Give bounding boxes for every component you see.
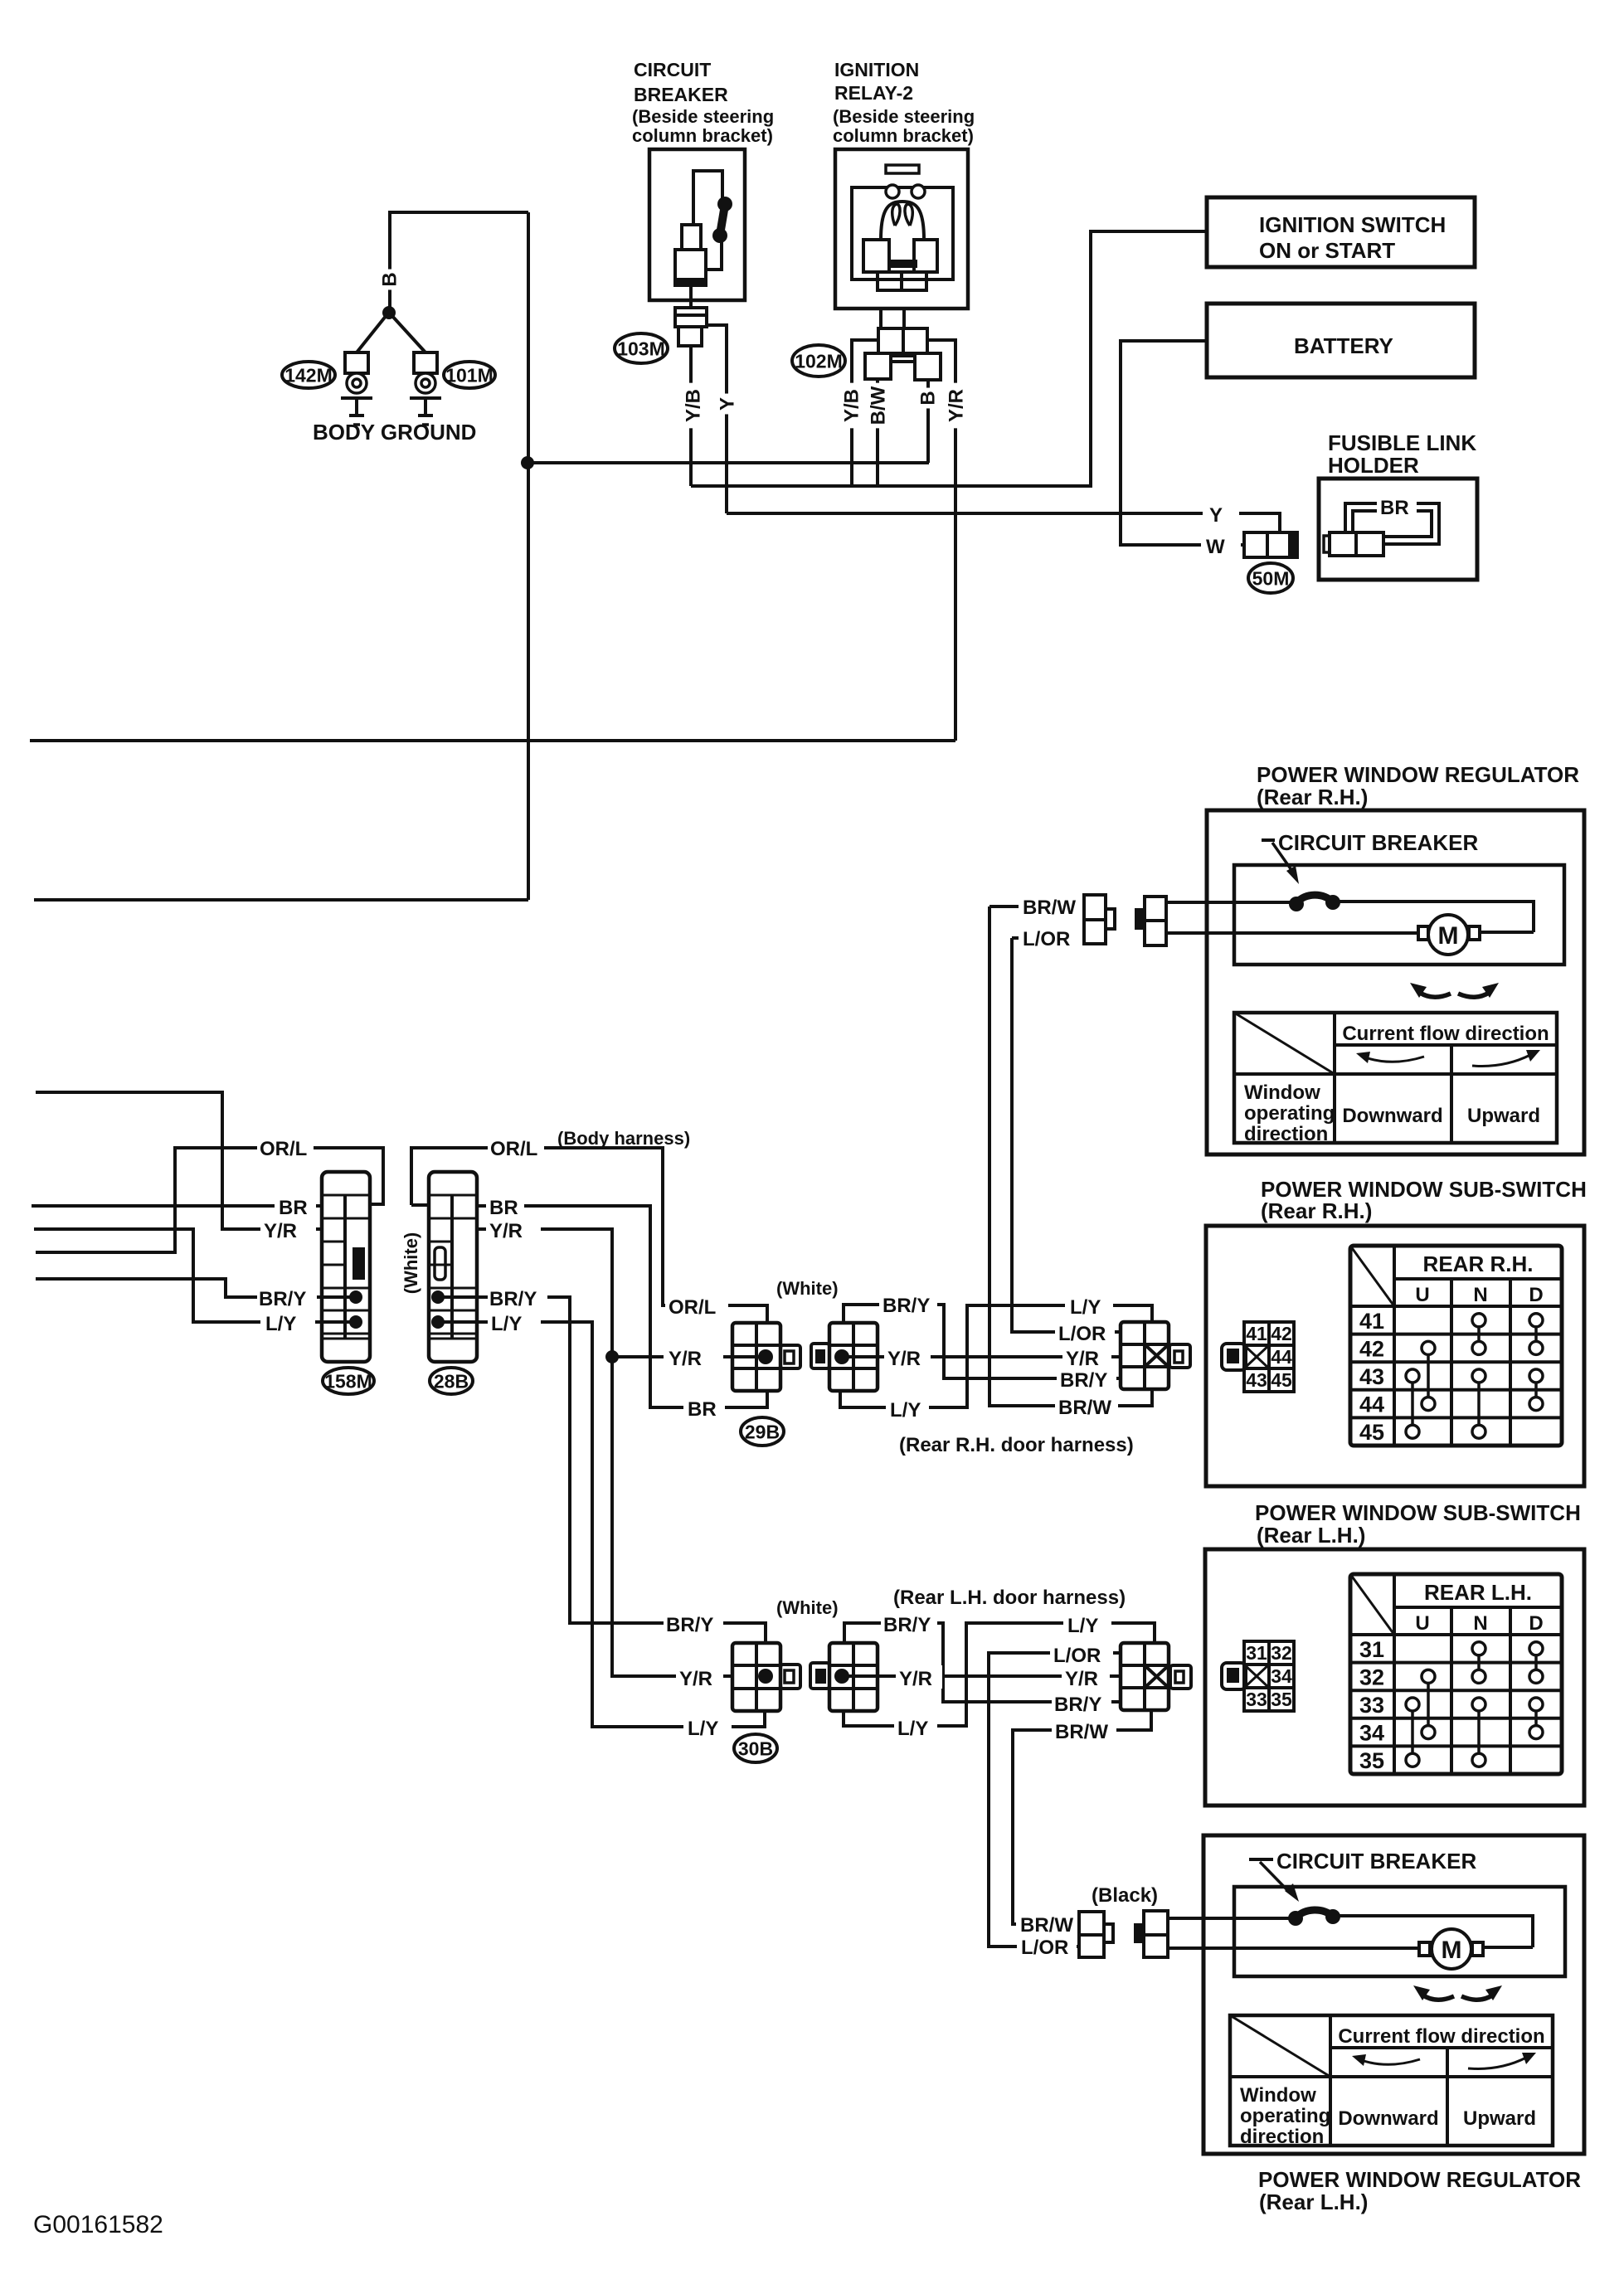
wire L/Y 29B to subswitch — [840, 1305, 1152, 1407]
svg-text:(White): (White) — [776, 1597, 839, 1618]
svg-text:L/OR: L/OR — [1021, 1937, 1068, 1959]
connector to subswitch RH tab — [1169, 1344, 1190, 1368]
fusible link loop — [1345, 503, 1439, 544]
label BR/Y 158M — [257, 1286, 317, 1309]
svg-text:CIRCUIT BREAKER: CIRCUIT BREAKER — [1276, 1849, 1476, 1874]
svg-text:34: 34 — [1359, 1721, 1384, 1746]
svg-text:BODY GROUND: BODY GROUND — [313, 420, 476, 445]
label Y/R 30B right — [1062, 1665, 1110, 1689]
svg-text:44: 44 — [1271, 1346, 1292, 1368]
svg-text:35: 35 — [1359, 1748, 1384, 1773]
relay coil — [881, 202, 924, 240]
label BR 29B — [683, 1395, 725, 1420]
svg-text:Y/R: Y/R — [679, 1668, 712, 1690]
svg-text:B/W: B/W — [868, 386, 890, 425]
relay slot — [886, 165, 919, 173]
regulator RH inner frame — [1234, 865, 1564, 965]
relay inner box — [852, 187, 953, 279]
rotation arrows RH — [1420, 993, 1451, 997]
svg-text:42: 42 — [1359, 1336, 1384, 1361]
svg-text:BR/Y: BR/Y — [883, 1614, 931, 1636]
svg-text:CIRCUIT: CIRCUIT — [634, 59, 711, 80]
svg-text:(Rear R.H. door harness): (Rear R.H. door harness) — [899, 1434, 1134, 1456]
label L/Y right — [1065, 1294, 1113, 1319]
label Y/R 28B — [486, 1217, 541, 1241]
wire bus L/Y 158M — [34, 1229, 322, 1322]
connector 30B left — [732, 1643, 780, 1711]
svg-text:B: B — [917, 391, 940, 405]
svg-text:Y/R: Y/R — [899, 1668, 932, 1690]
label OR/L 158M — [257, 1135, 314, 1159]
svg-text:29B: 29B — [745, 1421, 780, 1442]
connector 102M label — [792, 345, 845, 377]
svg-text:U: U — [1415, 1284, 1429, 1306]
connector 103M label — [615, 333, 668, 363]
connector 30B left tab — [780, 1665, 800, 1689]
connector 28B pins — [431, 1290, 445, 1304]
label BR/W regulator RH — [1019, 895, 1088, 918]
wire Y/B from 103M — [689, 346, 693, 486]
svg-text:Y/B: Y/B — [841, 389, 863, 422]
label L/Y 30B right — [1063, 1612, 1111, 1635]
svg-text:32: 32 — [1271, 1642, 1292, 1664]
wire L/OR to subswitch — [1012, 938, 1121, 1332]
wire BR/W 30B to regulator — [1013, 1712, 1151, 1924]
ground 142M — [345, 352, 368, 373]
svg-text:OR/L: OR/L — [669, 1296, 716, 1319]
label Y/B 102M — [837, 383, 867, 429]
svg-text:L/OR: L/OR — [1053, 1645, 1101, 1667]
wire motor LH right — [1483, 1946, 1533, 1949]
svg-text:34: 34 — [1271, 1665, 1292, 1687]
wire relay to 102M — [879, 309, 883, 328]
wire Y/B from 102M — [852, 340, 878, 486]
svg-text:POWER WINDOW REGULATOR: POWER WINDOW REGULATOR — [1258, 2167, 1581, 2192]
svg-text:L/Y: L/Y — [890, 1399, 921, 1422]
wire regulator RH top right — [1333, 902, 1534, 932]
connector regulator RH left — [1084, 895, 1106, 944]
label Y/R right — [1062, 1345, 1111, 1368]
svg-text:33: 33 — [1246, 1689, 1267, 1710]
svg-text:L/Y: L/Y — [688, 1718, 718, 1740]
wire BR/Y 30B to subswitch — [844, 1623, 1121, 1702]
wire Y/R from 102M — [927, 340, 955, 741]
svg-text:102M: 102M — [795, 350, 843, 372]
svg-text:BR/W: BR/W — [1020, 1914, 1073, 1937]
wire y586 Y/B B/W to ignition switch — [691, 231, 1207, 486]
svg-text:BR/Y: BR/Y — [259, 1288, 306, 1310]
svg-text:Window: Window — [1244, 1081, 1320, 1104]
svg-text:158M: 158M — [324, 1370, 372, 1392]
label OR/L 29B — [665, 1294, 728, 1319]
circuit breaker CB1 connector — [682, 225, 701, 250]
svg-text:42: 42 — [1271, 1323, 1292, 1344]
svg-text:101M: 101M — [445, 364, 494, 386]
connector 30B right pin — [834, 1669, 849, 1684]
svg-text:N: N — [1473, 1284, 1487, 1306]
wire BR/W to subswitch — [989, 906, 1152, 1406]
svg-text:BATTERY: BATTERY — [1294, 333, 1393, 358]
connector 103M — [675, 308, 707, 327]
connector regulator LH left — [1079, 1912, 1104, 1957]
svg-text:32: 32 — [1359, 1665, 1384, 1689]
label BR/W regulator LH — [1016, 1912, 1077, 1936]
arrow to breaker RH — [1272, 843, 1296, 876]
svg-text:L/OR: L/OR — [1058, 1323, 1106, 1345]
svg-text:BR/Y: BR/Y — [489, 1288, 537, 1310]
svg-text:OR/L: OR/L — [260, 1138, 307, 1160]
connector 30B left pin — [758, 1669, 773, 1684]
relay pin circles — [886, 185, 899, 198]
switch table REAR L.H. — [1350, 1574, 1562, 1774]
connector 30B right — [829, 1643, 878, 1711]
label Y/B 103M — [678, 383, 708, 429]
sub-switch LH pin grid — [1244, 1641, 1294, 1711]
circuit breaker CB1 wire to connector — [706, 241, 722, 270]
circuit breaker CB1 internal wire — [693, 171, 722, 225]
svg-text:column bracket): column bracket) — [632, 125, 773, 146]
fusible link connector — [1330, 532, 1383, 556]
wire bus BR 158M — [32, 1204, 322, 1208]
connector 29B label — [741, 1417, 784, 1446]
wire bus BR/Y 158M — [36, 1279, 322, 1297]
wire L/Y 30B to subswitch — [844, 1623, 1155, 1726]
label Y fusible — [1203, 501, 1239, 526]
label B (body ground wire) — [375, 270, 405, 290]
label (White) 28B — [398, 1219, 425, 1306]
motor M RH — [1418, 926, 1428, 940]
connector 29B right — [829, 1323, 878, 1391]
svg-text:operating: operating — [1244, 1102, 1335, 1125]
label BR/Y 30B left — [664, 1611, 723, 1635]
ignition switch box — [1207, 197, 1475, 267]
svg-text:Downward: Downward — [1342, 1105, 1442, 1127]
svg-text:BR/Y: BR/Y — [1060, 1369, 1107, 1392]
svg-text:(Black): (Black) — [1092, 1884, 1158, 1907]
svg-text:ON or START: ON or START — [1259, 238, 1395, 263]
label Y/R 158M — [260, 1217, 316, 1241]
wire Y/R into 29B — [612, 1355, 766, 1358]
label W fusible — [1201, 532, 1241, 557]
svg-text:(Rear L.H.): (Rear L.H.) — [1257, 1523, 1365, 1548]
svg-text:BR/W: BR/W — [1058, 1397, 1111, 1419]
label BR/Y 29B right — [879, 1290, 937, 1315]
svg-text:Y/R: Y/R — [489, 1220, 523, 1242]
svg-text:L/OR: L/OR — [1023, 928, 1070, 950]
svg-text:U: U — [1415, 1612, 1429, 1635]
svg-text:IGNITION: IGNITION — [834, 59, 919, 80]
svg-text:28B: 28B — [434, 1370, 469, 1392]
power window regulator LH box — [1203, 1835, 1584, 2154]
label Y/R 30B left — [676, 1665, 723, 1689]
label B/W 102M — [863, 383, 893, 429]
svg-text:Upward: Upward — [1463, 2107, 1536, 2130]
svg-text:L/Y: L/Y — [265, 1313, 296, 1335]
svg-text:(Rear R.H.): (Rear R.H.) — [1257, 785, 1368, 809]
wire L/OR 30B to regulator — [989, 1653, 1121, 1946]
connector 29B left — [732, 1323, 780, 1391]
node Y/R junction — [605, 1350, 619, 1363]
regulator LH inner frame — [1234, 1887, 1565, 1976]
wire motor RH right — [1480, 931, 1534, 934]
label Y/R 30B mid — [896, 1665, 942, 1689]
label BR/W 30B right — [1052, 1718, 1116, 1742]
wire bus Y/R long — [30, 739, 955, 742]
wire B to body ground — [390, 212, 528, 309]
svg-text:L/Y: L/Y — [491, 1313, 522, 1335]
svg-text:D: D — [1529, 1284, 1543, 1306]
svg-text:(Body harness): (Body harness) — [557, 1128, 690, 1149]
label BR fusible — [1377, 494, 1417, 518]
svg-text:43: 43 — [1359, 1364, 1384, 1389]
svg-text:Window: Window — [1240, 2084, 1316, 2107]
fusible link holder box — [1319, 479, 1477, 580]
svg-text:direction: direction — [1244, 1123, 1328, 1145]
label BR/Y 30B mid — [881, 1611, 937, 1635]
svg-text:OR/L: OR/L — [490, 1138, 537, 1160]
wire horizontal y558 to B pin — [528, 461, 929, 464]
power window regulator RH box — [1207, 810, 1584, 1154]
wire Y/R to 30B — [612, 1674, 732, 1678]
wire CB1 to 103M — [689, 287, 693, 308]
svg-text:RELAY-2: RELAY-2 — [834, 82, 913, 104]
sub-switch RH pin grid — [1244, 1322, 1294, 1392]
wire L/OR label to connector RH — [1012, 936, 1084, 940]
connector 30B label — [734, 1734, 777, 1762]
svg-text:(Rear L.H.): (Rear L.H.) — [1259, 2190, 1368, 2214]
wire B from 102M — [926, 380, 930, 463]
svg-text:(White): (White) — [776, 1278, 839, 1299]
wire Y/R 28B down — [475, 1229, 732, 1676]
connector 29B right attach — [811, 1344, 829, 1368]
wire regulator RH bottom — [1166, 931, 1418, 935]
wire regulator RH top — [1166, 901, 1296, 904]
label Y 103M — [712, 394, 742, 415]
label L/OR regulator RH — [1019, 926, 1087, 950]
connector 30B right attach — [810, 1663, 829, 1689]
label OR/L 28B — [488, 1135, 544, 1159]
wire Y from 103M — [707, 325, 727, 513]
wire regulator LH top — [1168, 1917, 1296, 1920]
svg-text:column bracket): column bracket) — [833, 125, 974, 146]
label L/OR right — [1055, 1320, 1115, 1345]
svg-text:41: 41 — [1246, 1323, 1267, 1344]
svg-text:direction: direction — [1240, 2126, 1324, 2148]
wire B/W from 102M — [876, 379, 879, 486]
connector 158M pins — [322, 1295, 356, 1299]
label BR 28B — [486, 1194, 524, 1217]
svg-text:M: M — [1442, 1937, 1462, 1964]
connector to subswitch RH — [1121, 1322, 1169, 1389]
connector 101M label — [444, 362, 495, 388]
circuit breaker CB1 element — [720, 205, 725, 235]
svg-text:IGNITION SWITCH: IGNITION SWITCH — [1259, 212, 1446, 237]
svg-text:BR: BR — [1380, 497, 1409, 519]
svg-text:M: M — [1438, 922, 1459, 950]
wire horizontal y1085 — [34, 898, 528, 902]
svg-text:(White): (White) — [401, 1232, 421, 1295]
svg-text:W: W — [1206, 536, 1225, 558]
label Y/R 29B left — [664, 1345, 723, 1368]
label L/Y mid — [886, 1395, 929, 1420]
label Y/R 102M — [941, 383, 971, 429]
svg-text:BREAKER: BREAKER — [634, 84, 728, 105]
wire BR/W label to connector RH — [989, 905, 1084, 908]
svg-text:BR: BR — [489, 1197, 518, 1219]
current flow table RH — [1234, 1013, 1557, 1143]
svg-text:103M: 103M — [617, 338, 665, 359]
wire BR/Y 28B down — [438, 1297, 766, 1643]
power window sub-switch RH box — [1206, 1226, 1584, 1486]
connector 102M — [878, 328, 903, 353]
svg-text:142M: 142M — [284, 364, 333, 386]
svg-text:(Beside steering: (Beside steering — [833, 106, 975, 127]
node main junction — [521, 456, 534, 469]
ignition relay-2 box — [835, 149, 968, 309]
svg-text:L/Y: L/Y — [1067, 1615, 1098, 1637]
connector 28B label — [430, 1368, 473, 1394]
svg-text:Y: Y — [717, 397, 739, 411]
svg-text:HOLDER: HOLDER — [1328, 453, 1419, 478]
wire BR 28B to 29B — [475, 1206, 767, 1407]
svg-text:BR/Y: BR/Y — [1054, 1694, 1101, 1716]
svg-text:BR: BR — [688, 1398, 717, 1421]
svg-text:Y/R: Y/R — [669, 1348, 702, 1370]
svg-text:Current flow direction: Current flow direction — [1342, 1023, 1549, 1045]
svg-text:(Rear L.H. door harness): (Rear L.H. door harness) — [893, 1587, 1126, 1609]
power window sub-switch LH box — [1205, 1549, 1584, 1806]
svg-text:Current flow direction: Current flow direction — [1338, 2025, 1544, 2048]
svg-text:POWER WINDOW SUB-SWITCH: POWER WINDOW SUB-SWITCH — [1255, 1500, 1581, 1525]
connector 158M — [322, 1172, 370, 1362]
svg-text:50M: 50M — [1252, 567, 1290, 589]
label BR/W right — [1055, 1394, 1118, 1419]
svg-text:33: 33 — [1359, 1693, 1384, 1718]
wire battery to W — [1121, 341, 1244, 545]
svg-text:45: 45 — [1359, 1420, 1384, 1445]
wire BR/Y 29B to subswitch — [844, 1305, 1121, 1378]
label L/Y 30B mid — [894, 1715, 937, 1738]
svg-text:B: B — [379, 272, 401, 286]
connector to subswitch LH tab — [1170, 1665, 1191, 1689]
connector 142M label — [282, 362, 335, 388]
svg-text:Y/R: Y/R — [887, 1348, 921, 1370]
circuit breaker element RH — [1296, 895, 1333, 903]
wire bus y1317 to Y/R 158M — [36, 1092, 322, 1229]
wire L/Y 28B down — [438, 1322, 765, 1727]
caption circuit breaker LH — [1249, 1858, 1273, 1861]
svg-text:30B: 30B — [738, 1738, 773, 1759]
wire to ground 142M — [357, 315, 387, 352]
svg-text:41: 41 — [1359, 1309, 1384, 1334]
svg-text:BR/W: BR/W — [1023, 897, 1076, 919]
label L/OR 30B right — [1050, 1642, 1113, 1665]
wire bus OR/L 158M — [36, 1148, 383, 1252]
svg-text:Y/R: Y/R — [1065, 1668, 1098, 1690]
ground 101M — [414, 352, 437, 373]
current flow table LH — [1230, 2015, 1553, 2146]
label BR/Y 28B — [488, 1286, 547, 1309]
svg-text:REAR R.H.: REAR R.H. — [1423, 1251, 1534, 1276]
svg-text:D: D — [1529, 1612, 1543, 1635]
connector 28B — [429, 1172, 477, 1362]
svg-text:G00161582: G00161582 — [33, 2211, 163, 2238]
label L/Y 28B — [488, 1310, 541, 1334]
wire OR/L 28B — [411, 1203, 429, 1207]
relay contacts — [863, 240, 889, 272]
svg-text:BR/W: BR/W — [1055, 1721, 1108, 1743]
label BR/Y subswitch RH — [1057, 1367, 1116, 1392]
circuit breaker element LH — [1296, 1910, 1333, 1918]
svg-text:35: 35 — [1271, 1689, 1292, 1710]
node B junction — [382, 306, 396, 319]
svg-text:FUSIBLE LINK: FUSIBLE LINK — [1328, 430, 1476, 455]
svg-text:L/Y: L/Y — [897, 1718, 928, 1740]
circuit breaker CB1 box — [649, 149, 745, 300]
connector 50M — [1244, 532, 1290, 557]
svg-text:N: N — [1473, 1612, 1487, 1635]
battery box — [1207, 304, 1475, 377]
svg-text:BR: BR — [279, 1197, 308, 1219]
svg-text:31: 31 — [1359, 1637, 1384, 1662]
wire main vertical — [527, 212, 530, 900]
motor M LH — [1419, 1942, 1430, 1956]
svg-text:(Rear R.H.): (Rear R.H.) — [1261, 1198, 1372, 1223]
svg-text:Upward: Upward — [1467, 1105, 1540, 1127]
svg-text:Y/R: Y/R — [264, 1220, 297, 1242]
svg-text:45: 45 — [1271, 1369, 1292, 1391]
svg-text:operating: operating — [1240, 2105, 1330, 2127]
label BR/Y 30B right — [1052, 1690, 1111, 1715]
connector regulator LH right — [1134, 1923, 1145, 1943]
switch table REAR R.H. — [1350, 1246, 1562, 1446]
connector 29B left pin — [758, 1349, 773, 1364]
svg-text:43: 43 — [1246, 1369, 1267, 1391]
label L/Y 158M — [260, 1310, 315, 1334]
label BR 158M — [275, 1194, 316, 1217]
connector 28B keying — [435, 1247, 445, 1280]
wire Y to fusible link — [727, 513, 1280, 532]
svg-text:Y/R: Y/R — [1066, 1348, 1099, 1370]
wire Y/R 30B to subswitch — [842, 1674, 1121, 1678]
wire Y/R 29B to subswitch — [842, 1355, 1121, 1358]
connector 158M label — [323, 1368, 374, 1394]
connector regulator RH right — [1135, 908, 1146, 930]
wire regulator LH top right — [1333, 1916, 1533, 1947]
wire regulator LH bottom — [1168, 1946, 1419, 1950]
connector 50M label — [1248, 563, 1293, 593]
label L/Y 30B left — [683, 1715, 732, 1738]
connector 158M keying — [353, 1247, 365, 1280]
svg-text:44: 44 — [1359, 1392, 1384, 1417]
svg-text:31: 31 — [1246, 1642, 1267, 1664]
svg-text:L/Y: L/Y — [1070, 1296, 1101, 1319]
svg-text:(Beside steering: (Beside steering — [632, 106, 774, 127]
svg-text:BR/Y: BR/Y — [883, 1295, 930, 1317]
svg-text:BR/Y: BR/Y — [666, 1614, 713, 1636]
svg-text:POWER WINDOW REGULATOR: POWER WINDOW REGULATOR — [1257, 762, 1579, 787]
label B 102M — [913, 388, 943, 409]
svg-text:REAR L.H.: REAR L.H. — [1424, 1580, 1532, 1605]
label Y/R mid — [884, 1345, 931, 1368]
arrow to breaker LH — [1260, 1862, 1291, 1893]
svg-text:CIRCUIT BREAKER: CIRCUIT BREAKER — [1278, 830, 1478, 855]
connector to subswitch LH — [1121, 1643, 1169, 1710]
label L/OR regulator LH — [1017, 1935, 1077, 1958]
svg-text:Y/R: Y/R — [946, 389, 968, 422]
svg-text:Downward: Downward — [1338, 2107, 1438, 2130]
svg-text:Y/B: Y/B — [683, 389, 705, 422]
